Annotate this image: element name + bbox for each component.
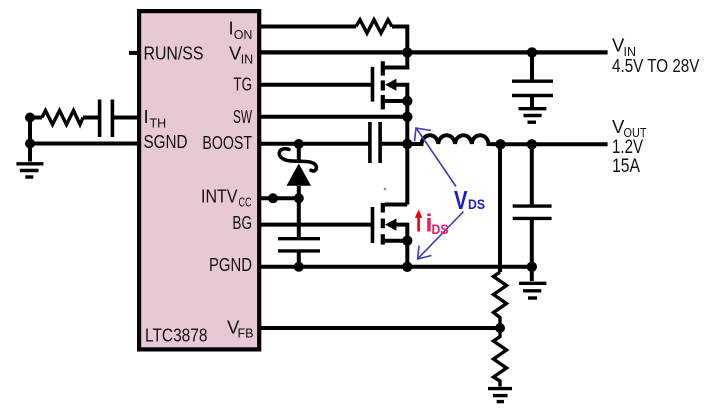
resistor R-ITH — [42, 111, 83, 125]
wire boost capacitor to SW node — [382, 142, 408, 146]
pin label VFB — [227, 317, 253, 341]
pin label INTVCC — [201, 186, 252, 210]
label iDS — [426, 210, 449, 238]
node VOUT-divider junction — [495, 139, 505, 149]
node ITH junction — [25, 113, 35, 123]
transistor Q1 source lead — [385, 99, 408, 103]
svg-text:SGND: SGND — [144, 131, 188, 152]
inductor L1 — [407, 135, 500, 144]
transistor Q1 channel segments — [381, 61, 385, 109]
pin label VIN — [229, 42, 253, 66]
wire BG — [259, 223, 371, 227]
ground output — [519, 283, 546, 298]
wire CVCC to PGND — [297, 253, 301, 267]
label VIN supply — [612, 35, 636, 59]
wire PGND rail — [259, 265, 532, 269]
wire INTVCC to CVCC — [297, 198, 301, 237]
wire Q2 source to PGND — [405, 241, 409, 267]
resistor R-ION — [356, 20, 392, 34]
transistor Q2 drain lead — [385, 203, 408, 207]
wire BOOST pin to capacitor — [259, 142, 369, 146]
wire resistor to VIN rail corner — [392, 27, 407, 53]
ground input — [519, 109, 547, 123]
transistor Q1 body wire — [396, 85, 407, 101]
annotation arrow iDS red — [415, 210, 422, 232]
svg-text:ON: ON — [234, 28, 253, 42]
wire VOUT rail — [501, 142, 608, 146]
svg-text:TH: TH — [150, 117, 167, 131]
wire CIN to ground — [530, 97, 534, 107]
wire SGND — [30, 142, 140, 146]
capacitor CVCC — [278, 239, 320, 251]
resistor R1 feedback top — [494, 272, 507, 328]
wire resistor to capacitor — [83, 116, 98, 120]
wire capacitor to ITH pin — [114, 116, 140, 120]
wire RUN/SS stub — [129, 51, 141, 55]
wire VOUT to R1 — [498, 144, 502, 272]
label VDS — [454, 185, 485, 215]
wire TG — [259, 83, 371, 87]
node VIN-drain junction — [402, 47, 412, 57]
capacitor CB boost — [370, 122, 380, 163]
svg-text:IN: IN — [241, 52, 254, 66]
diode D1 anode lead — [297, 186, 301, 199]
svg-text:I: I — [144, 106, 149, 127]
svg-text:DS: DS — [432, 221, 449, 237]
node SW-inductor junction — [402, 139, 412, 149]
label VOUT — [612, 116, 647, 140]
node Q2-PGND junction — [402, 262, 412, 272]
node Q1 source junction — [402, 96, 412, 106]
svg-text:DS: DS — [468, 197, 485, 212]
capacitor CIN — [512, 81, 553, 95]
transistor Q2 source lead — [385, 239, 408, 243]
svg-text:CC: CC — [239, 196, 252, 210]
wire VFB pin — [259, 326, 500, 330]
node INTVCC-diode junction — [294, 193, 304, 203]
diode D1 schottky cathode curl — [279, 149, 316, 171]
wire COUT to PGND — [530, 220, 534, 281]
stray mark — [384, 188, 386, 190]
svg-text:FB: FB — [238, 327, 254, 341]
svg-text:15A: 15A — [612, 156, 640, 177]
capacitor COUT — [513, 206, 552, 218]
node VOUT-COUT junction — [527, 139, 537, 149]
svg-text:BOOST: BOOST — [202, 132, 252, 153]
node BOOST-diode junction — [294, 139, 304, 149]
svg-text:SW: SW — [233, 106, 252, 127]
wire VIN rail — [259, 50, 608, 54]
IC U1 LTC3878 body — [139, 11, 259, 349]
svg-text:TG: TG — [233, 73, 252, 94]
wire ITH left segment — [30, 116, 42, 120]
wire INTVCC pin — [259, 196, 299, 200]
node COUT-PGND junction — [527, 262, 537, 272]
svg-text:1.2V: 1.2V — [612, 137, 643, 158]
node VFB junction — [495, 323, 505, 333]
transistor Q1 body arrow — [385, 79, 396, 91]
annotation arrow VDS upper — [415, 128, 457, 187]
transistor Q2 bottom MOSFET gate bar — [371, 207, 375, 243]
transistor Q2 channel segments — [381, 203, 385, 245]
svg-text:LTC3878: LTC3878 — [145, 325, 208, 346]
pin label ION — [229, 18, 253, 42]
capacitor C-ITH — [100, 100, 113, 138]
node SGND junction — [25, 139, 35, 149]
node Q2 source junction — [402, 236, 412, 246]
transistor Q2 body wire — [396, 225, 407, 241]
resistor R2 feedback bottom — [494, 328, 507, 387]
transistor Q1 drain lead — [385, 52, 408, 67]
wire SW pin — [259, 115, 407, 119]
svg-text:INTV: INTV — [201, 186, 238, 207]
wire ITH-SGND vertical — [28, 118, 32, 162]
wire VOUT to COUT — [530, 144, 534, 204]
svg-text:V: V — [454, 185, 468, 215]
annotation arrow VDS lower — [418, 212, 464, 260]
svg-text:4.5V TO 28V: 4.5V TO 28V — [612, 55, 700, 76]
node SW pin junction — [402, 112, 412, 122]
ground SGND — [16, 164, 43, 177]
svg-text:PGND: PGND — [209, 254, 252, 275]
ground feedback — [488, 389, 512, 402]
diode D1 triangle — [287, 164, 312, 186]
wire CIN top — [530, 52, 534, 79]
transistor Q2 body arrow — [385, 219, 396, 231]
pin label ITH — [144, 106, 167, 131]
node VIN-CIN junction — [527, 47, 537, 57]
wire ION to resistor — [259, 25, 356, 29]
svg-text:BG: BG — [232, 212, 252, 233]
wire SW node vertical — [405, 101, 409, 205]
node INTVCC pin junction — [268, 193, 278, 203]
node CVCC-PGND junction — [294, 262, 304, 272]
svg-text:RUN/SS: RUN/SS — [144, 42, 204, 63]
transistor Q1 top MOSFET gate bar — [371, 67, 375, 102]
diode D1 schottky cathode lead — [297, 144, 301, 161]
